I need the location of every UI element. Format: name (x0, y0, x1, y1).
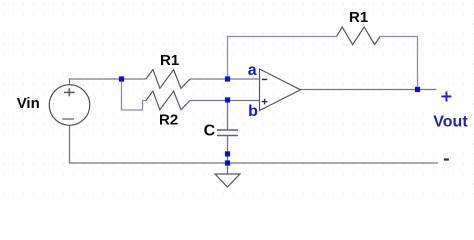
wire: capacitor bottom to ground (227, 136, 229, 174)
resistor R1 (input) (146, 70, 190, 89)
wire: R1 right to node 2 (190, 78, 228, 80)
svg-text:R2: R2 (159, 112, 178, 129)
wire: node 3 down to capacitor (227, 102, 229, 130)
ground (215, 174, 240, 187)
op-amp plus mark (262, 99, 268, 105)
junction cap-ground on rail (225, 160, 230, 165)
source V1 circle (49, 85, 90, 126)
junction node 2 (225, 76, 230, 81)
wire: R1 feedback right, down to output node (380, 37, 418, 88)
wire: R2 right to node 3 (190, 100, 228, 102)
svg-text:Vin: Vin (17, 95, 40, 112)
wire: node 1 to R1 left (122, 78, 147, 80)
source plus sign (64, 88, 75, 96)
junction output node (415, 87, 420, 92)
wire: Vin bottom down, bottom rail to negative terminal (70, 125, 439, 163)
resistor R2 (146, 91, 190, 110)
op-amp U1 triangle (260, 69, 301, 111)
source minus sign (62, 118, 74, 120)
wire: node 3 to op-amp non-inverting input (228, 100, 260, 102)
svg-text:a: a (248, 62, 257, 79)
junction node 3 (225, 97, 230, 102)
svg-text:C: C (204, 123, 216, 140)
wire: node 2 to op-amp inverting input (228, 78, 260, 80)
op-amp minus mark (262, 78, 267, 80)
resistor R1 (feedback) (337, 27, 381, 45)
wire: Vin top to node 1 (70, 79, 122, 85)
capacitor C plates (217, 130, 238, 136)
junction cap-ground upper (225, 151, 230, 156)
svg-text:b: b (248, 103, 258, 120)
junction node 1 (119, 76, 124, 81)
svg-text:Vout: Vout (433, 114, 468, 131)
svg-text:R1: R1 (349, 9, 368, 26)
wire: op-amp output to output terminal (301, 89, 437, 91)
label + output (441, 91, 451, 101)
label - output (444, 158, 449, 160)
svg-text:R1: R1 (160, 52, 179, 69)
wire: node 1 down and step to R2 left (122, 81, 147, 110)
wire: feedback from node 2 up, across to R1 feedback left (228, 37, 337, 78)
